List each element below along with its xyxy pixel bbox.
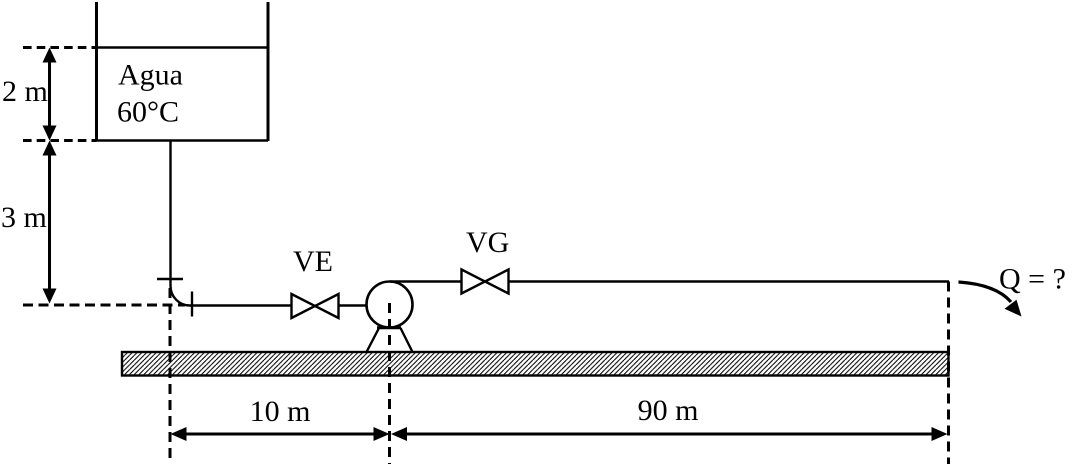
tank left wall xyxy=(95,2,98,141)
svg-text:Q = ?: Q = ? xyxy=(999,263,1066,296)
suction pipe horizontal xyxy=(190,304,292,306)
svg-text:2 m: 2 m xyxy=(2,75,48,108)
flange tick on vertical pipe xyxy=(157,278,183,280)
tank right wall xyxy=(267,2,270,141)
valve VG xyxy=(462,270,509,294)
svg-text:VE: VE xyxy=(293,245,333,278)
pump base top edge xyxy=(377,326,401,329)
svg-text:Agua: Agua xyxy=(118,59,183,92)
vertical suction pipe xyxy=(169,141,171,286)
pump circle P xyxy=(367,282,413,328)
dimension arrow 10 m xyxy=(171,427,390,441)
flange tick on horizontal pipe xyxy=(191,292,193,317)
tank bottom xyxy=(95,139,268,142)
discharge pipe valve VG to outlet xyxy=(509,280,950,282)
valve VE xyxy=(292,294,339,318)
dashed centerline at elbow xyxy=(169,288,172,461)
dashed datum at tank bottom xyxy=(23,139,97,142)
label Agua 60C xyxy=(117,59,183,129)
ground slab hatched xyxy=(122,352,949,376)
svg-text:3 m: 3 m xyxy=(1,201,47,234)
svg-text:VG: VG xyxy=(466,226,509,259)
pipe valve VE to pump xyxy=(339,304,369,306)
dashed centerline at outlet xyxy=(947,282,950,464)
svg-text:90 m: 90 m xyxy=(638,394,699,427)
dimension arrow 90 m xyxy=(391,427,948,441)
dashed centerline at pump xyxy=(388,303,391,464)
water surface line xyxy=(97,46,269,49)
dimension arrow 2 m xyxy=(43,48,57,141)
discharge pipe pump to valve VG xyxy=(390,280,462,282)
dashed datum at water level xyxy=(23,46,97,49)
svg-text:60°C: 60°C xyxy=(117,96,179,129)
pipe elbow xyxy=(171,286,191,306)
dashed datum at suction level xyxy=(23,304,185,307)
dimension arrow 3 m xyxy=(43,141,57,304)
outlet flow arrow xyxy=(959,282,1022,317)
pump support legs xyxy=(367,328,413,352)
svg-text:10 m: 10 m xyxy=(250,395,311,428)
